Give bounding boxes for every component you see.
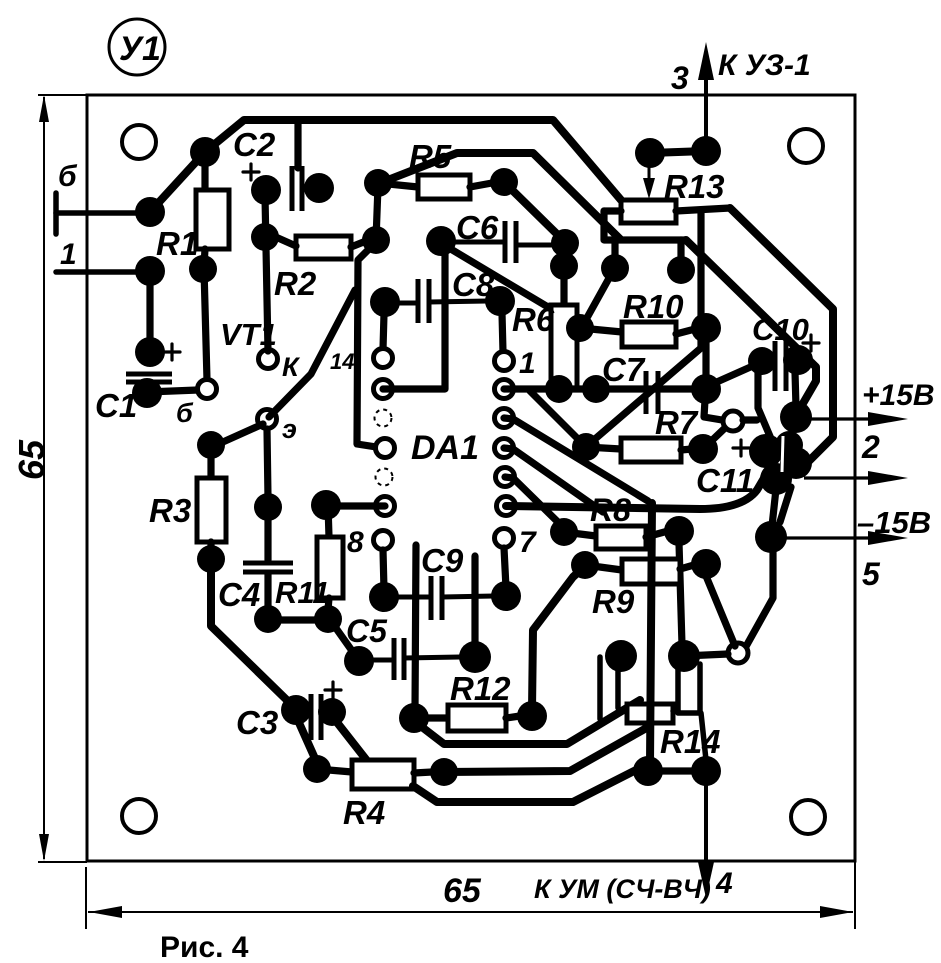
wire C4 to R11 bottom [268, 616, 322, 623]
wire C8 left pad to DA1 pin 14 [383, 314, 384, 349]
wire right box [678, 664, 700, 713]
wire C7 strike diagonal [588, 348, 701, 445]
resistor R11 [311, 490, 341, 520]
+15В output arrow [796, 417, 896, 420]
svg-text:65: 65 [11, 439, 52, 480]
svg-text:C9: C9 [421, 542, 464, 579]
capacitor C4 [243, 561, 293, 566]
DA1 pin 5 [496, 468, 515, 487]
wire vertical through R9 and R14 [650, 503, 652, 763]
svg-text:R12: R12 [450, 670, 511, 707]
wire DA1 pin 5 diagonal to R8 [505, 477, 564, 528]
svg-text:R6: R6 [512, 301, 555, 338]
DA1 pin 11 [376, 439, 395, 458]
wire R2 right pad to DA1 pin 11 [357, 242, 383, 448]
DA1 pin 2 [495, 380, 514, 399]
svg-text:К: К [282, 352, 301, 382]
resistor R10 [566, 314, 594, 342]
wire outer ring right [730, 208, 833, 464]
wire middle ring bottom [444, 726, 650, 772]
resistor R7 [572, 433, 600, 461]
svg-text:R13: R13 [664, 168, 725, 205]
wire R1 bottom to б pad of VT1 [204, 269, 207, 380]
wire C2 to R2 to К pad [265, 196, 268, 351]
resistor R14 [627, 704, 673, 723]
mounting hole bottom-left [122, 799, 156, 833]
svg-text:R5: R5 [409, 138, 452, 175]
resistor R3 [214, 424, 263, 446]
svg-text:э: э [282, 414, 297, 444]
DA1 pin 13 [374, 380, 393, 399]
wire C7 right pad down to open pad [704, 400, 722, 420]
resistor R8 [550, 518, 578, 546]
svg-text:R10: R10 [623, 288, 684, 325]
left dimension line 65 [43, 97, 45, 859]
wire DA1 pin 7 to C9 right pad [504, 548, 506, 588]
wire C5 right pad up [471, 556, 478, 643]
wire outer ring top [205, 120, 621, 200]
svg-text:Рис. 4: Рис. 4 [160, 931, 249, 963]
wire R12 left pad up through C9 [415, 545, 416, 710]
DA1 pin 1 [495, 352, 514, 371]
wire R7 left pad to pin2 bus [530, 391, 586, 447]
node pad above right box [668, 640, 700, 672]
wire open pad to C10 trace [743, 416, 757, 423]
resistor R4 [303, 755, 331, 783]
wire R11 bottom to C5 left pad [333, 624, 355, 655]
svg-text:C7: C7 [602, 351, 646, 388]
via open pad near +15В [723, 411, 743, 431]
resistor R9 [571, 551, 599, 579]
wire C7 right pad to C10 left pad [710, 365, 755, 385]
resistor R12 [399, 703, 429, 733]
node б pad [135, 197, 165, 227]
wire inner ring right [686, 240, 816, 412]
svg-text:C1: C1 [95, 387, 137, 424]
svg-text:R4: R4 [343, 794, 385, 831]
wire R13 right lead down [697, 210, 704, 348]
node pad left of R14 [605, 640, 637, 672]
svg-text:C5: C5 [346, 613, 388, 649]
svg-text:R11: R11 [275, 575, 330, 610]
wire -15В pad down and to open pad [780, 487, 791, 522]
bottom dimension line 65 [88, 911, 853, 913]
wire э pad diagonal up [269, 290, 355, 417]
wire R12 right pad to R9 left pad [532, 566, 585, 710]
wire э chain down to C4 [267, 429, 268, 498]
wire б pad to R1 top [150, 152, 205, 212]
resistor R13 [621, 200, 676, 223]
wire C10 right pad down to +15В pad [795, 372, 796, 407]
wire R2 right pad up to R5 left pad [376, 186, 378, 240]
svg-text:R3: R3 [149, 492, 191, 529]
wire outer ring bottom [413, 768, 640, 802]
wire C6 left pad diagonal to R6 [444, 245, 553, 310]
svg-text:C2: C2 [233, 126, 276, 163]
pin б of VT1 [198, 380, 217, 399]
wire DA1 pin 3 diagonal [504, 418, 648, 501]
svg-text:R8: R8 [590, 492, 631, 528]
resistor R1 [190, 137, 220, 167]
node pad bottom [633, 756, 663, 786]
svg-text:3: 3 [671, 60, 689, 96]
mounting hole top-left [122, 125, 156, 159]
svg-text:65: 65 [443, 872, 482, 910]
svg-text:14: 14 [330, 349, 354, 374]
mounting hole bottom-right [791, 800, 825, 834]
DA1 pin 6 [497, 497, 516, 516]
svg-text:б: б [58, 160, 78, 193]
designator У1 circle [109, 19, 165, 75]
wire DA1 pin 13 to C6 left pad [383, 244, 445, 389]
svg-text:R7: R7 [655, 404, 699, 441]
svg-text:4: 4 [715, 867, 733, 900]
svg-text:C10: C10 [752, 312, 809, 347]
node 1 pad [135, 256, 165, 286]
svg-text:1: 1 [519, 347, 536, 380]
wire DA1 pin 6 to C11 cloud [506, 468, 770, 509]
svg-text:1: 1 [60, 238, 77, 271]
input stub б [53, 193, 59, 234]
resistor R6 [560, 243, 567, 305]
wire R7 right pad to open pad [703, 427, 726, 449]
wire R13 box below [604, 211, 686, 240]
DA1 pin 14 [374, 349, 393, 368]
resistor R5 [364, 169, 392, 197]
pin К of VT1 [259, 350, 278, 369]
wire DA1 pin 4 diagonal [504, 448, 603, 512]
dimension extension lines [38, 94, 87, 96]
wire R9 right pad to open pad [706, 576, 735, 646]
-15В output arrow [775, 536, 896, 539]
svg-text:К УМ (СЧ-ВЧ): К УМ (СЧ-ВЧ) [534, 874, 711, 904]
pin э of VT1 [258, 410, 277, 429]
wire C8 right pad to DA1 pin 1 [502, 313, 503, 352]
arrow from pad to R13 [648, 165, 651, 184]
board outline [87, 95, 855, 861]
wire R3 bottom to C3 [211, 559, 296, 709]
svg-text:R1: R1 [156, 225, 198, 262]
svg-text:б: б [176, 398, 194, 428]
svg-text:C4: C4 [218, 576, 260, 613]
wire inner ring top [380, 153, 620, 239]
wire DA1 pin 9 to R11 top pad [330, 502, 385, 509]
pin 2 output arrow [804, 476, 896, 479]
svg-text:К УЗ-1: К УЗ-1 [718, 49, 811, 82]
mounting hole top-right [789, 129, 823, 163]
svg-text:DA1: DA1 [411, 429, 479, 467]
wire DA1 pin 2 bus to C7 right pad [504, 385, 695, 392]
wire C3 right pad to R4 body [332, 716, 368, 762]
DA1 pin 7 [495, 529, 514, 548]
svg-text:2: 2 [861, 429, 880, 465]
wire C1 to б pad [147, 390, 198, 392]
svg-text:R2: R2 [274, 265, 317, 302]
wire C11 to -15В pad [772, 489, 776, 526]
DA1 pin 10 (unused) [376, 469, 393, 486]
DA1 pin 4 [495, 439, 514, 458]
resistor R13 top pads [635, 138, 665, 168]
wire R10 right pad down to C7 right pad [702, 330, 709, 378]
capacitor C1 [146, 271, 153, 352]
DA1 pin 3 [495, 409, 514, 428]
wire pad to open pad [684, 654, 728, 656]
svg-text:8: 8 [347, 526, 364, 559]
pin 4 arrow to К УМ [704, 772, 708, 872]
wire R10 left pad to R13 box pad [583, 271, 613, 325]
svg-text:5: 5 [862, 556, 881, 592]
DA1 pin 8 [374, 531, 393, 550]
wire DA1 pin 8 to C9 left pad [383, 550, 384, 590]
wire C3 left pad to R4 left pad [296, 716, 317, 763]
svg-text:+15В: +15В [862, 379, 935, 412]
svg-text:C11: C11 [696, 462, 754, 499]
DA1 pin 9 [376, 497, 395, 516]
svg-text:R9: R9 [592, 583, 635, 620]
svg-text:У1: У1 [119, 30, 161, 68]
wire C10 left pad down to C11 [758, 372, 772, 441]
svg-text:R14: R14 [660, 723, 721, 760]
via open pad bottom right [728, 643, 748, 663]
DA1 pin 12 (unused) [375, 410, 392, 427]
input stub 1 [56, 269, 145, 275]
svg-text:C3: C3 [236, 704, 278, 741]
svg-text:7: 7 [519, 526, 537, 559]
wire R5 right pad to C6 right pad [506, 184, 563, 240]
wire inner ring bottom [418, 700, 640, 744]
pin 3 arrow to К УЗ-1 [704, 70, 708, 150]
wire R8 right pad down to pad [679, 543, 682, 645]
svg-text:–15В: –15В [857, 505, 931, 540]
resistor R2 [296, 236, 351, 259]
